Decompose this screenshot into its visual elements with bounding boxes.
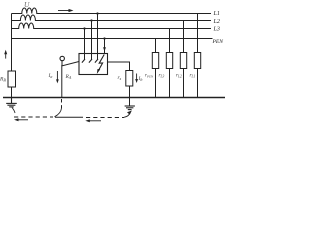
ground right (building earth) xyxy=(125,106,135,110)
svg-text:RA: RA xyxy=(65,74,72,80)
dashed earth-current line left xyxy=(14,116,53,118)
wire drop L1 to SPD xyxy=(97,14,99,61)
arrow up (left neutral current) xyxy=(5,53,7,59)
svg-text:L2: L2 xyxy=(213,19,220,25)
wire PEN line xyxy=(12,38,213,40)
terminal circle (isolating point) xyxy=(60,56,64,60)
wire drop L2 to SPD xyxy=(91,21,93,61)
svg-text:L3: L3 xyxy=(213,27,220,33)
svg-text:rL2: rL2 xyxy=(176,73,182,79)
svg-text:rs: rs xyxy=(118,75,122,81)
curve up to right ground with arrow xyxy=(124,114,130,118)
resistor rL2 drop xyxy=(183,21,185,98)
arrow down Ib xyxy=(136,74,138,81)
arrow down Ia xyxy=(56,71,58,81)
resistor rs xyxy=(126,71,133,87)
spark gap tick 1 xyxy=(82,59,85,63)
svg-text:rL1: rL1 xyxy=(190,73,196,79)
resistor rL3 drop xyxy=(169,29,171,98)
spark gap tick 2 xyxy=(89,59,92,63)
resistor rPEN xyxy=(152,53,158,69)
svg-text:L1: L1 xyxy=(213,11,220,17)
wire drop L3 to SPD xyxy=(84,29,86,61)
switch blade to SPD xyxy=(62,61,79,66)
svg-text:Ia: Ia xyxy=(48,73,53,79)
wire PE conductor down xyxy=(61,65,63,98)
resistor RB xyxy=(8,71,16,87)
wire below resistor RB xyxy=(11,87,13,103)
ground bus (earth line) xyxy=(3,97,225,99)
node dot L3 xyxy=(83,27,85,29)
arrow current left 1 xyxy=(17,119,28,121)
arrow current direction on L1 xyxy=(58,10,70,12)
arrow down on PEN drop xyxy=(103,47,106,51)
resistor rL3 xyxy=(166,53,172,69)
node dot L1 xyxy=(96,12,98,14)
svg-text:U: U xyxy=(24,0,30,9)
svg-text:rPEN: rPEN xyxy=(145,73,154,79)
dashed vertical below PE conductor xyxy=(61,99,63,108)
spark gap tick 3 xyxy=(95,59,98,63)
resistor rPEN drop xyxy=(155,39,157,98)
svg-text:RB: RB xyxy=(0,77,6,83)
svg-text:Ib: Ib xyxy=(138,76,143,82)
svg-text:PEN: PEN xyxy=(212,39,224,45)
dashed earth-current line right xyxy=(55,116,83,118)
resistor rL1 drop xyxy=(197,14,199,98)
resistor rL2 xyxy=(180,53,186,69)
dashed earth-current path: tail from left ground xyxy=(12,108,15,114)
wire SPD to rs xyxy=(108,62,130,71)
curve joining dashed line xyxy=(55,108,62,117)
SPD box U1 xyxy=(79,54,108,75)
arrow current left 2 xyxy=(89,120,102,122)
lightning bolt in SPD xyxy=(98,55,104,71)
node dot PEN xyxy=(103,37,105,39)
transformer T1 winding L1 xyxy=(12,8,212,14)
SPD arrows on stubs redrawn inside box xyxy=(0,0,1,1)
wire rs to ground xyxy=(129,86,131,106)
ground left (transformer earth) xyxy=(6,98,17,107)
wire star-point bus xyxy=(11,14,13,72)
resistor rL1 xyxy=(194,53,200,69)
node dot L2 xyxy=(90,19,92,21)
wire drop PEN to SPD xyxy=(104,39,106,55)
transformer T1 winding L2 xyxy=(12,15,212,21)
svg-text:rL3: rL3 xyxy=(159,73,165,79)
transformer T1 winding L3 xyxy=(12,23,212,28)
